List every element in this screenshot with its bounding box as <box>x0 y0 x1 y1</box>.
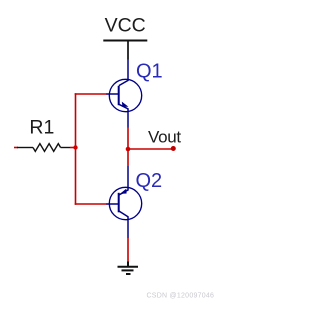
wire Q2 collector to ground <box>127 238 129 262</box>
power symbol VCC bar <box>103 40 147 42</box>
wire Q1 emitter to Vout node <box>127 128 129 150</box>
node Vout port end <box>171 146 176 151</box>
resistor R1 <box>17 144 70 152</box>
wire VCC bar to Q1 collector <box>127 41 129 60</box>
wire base bus vertical <box>75 93 77 205</box>
transistor Q1 (NPN) <box>106 60 142 128</box>
svg-text:VCC: VCC <box>105 14 146 36</box>
node Vout junction <box>126 147 131 152</box>
svg-text:R1: R1 <box>29 117 54 139</box>
node base junction <box>73 145 77 149</box>
svg-text:CSDN @120097046: CSDN @120097046 <box>147 292 215 299</box>
svg-text:Vout: Vout <box>148 127 181 146</box>
svg-text:Q1: Q1 <box>136 60 163 82</box>
svg-text:Q2: Q2 <box>136 170 163 192</box>
wire base bus top horizontal to Q1 base <box>75 93 107 95</box>
transistor Q2 (PNP) <box>106 166 142 238</box>
wire R1 left stub <box>14 147 18 149</box>
wire Vout node to Q2 emitter <box>127 149 129 166</box>
wire base bus bottom horizontal to Q2 base <box>75 203 107 205</box>
wire Vout <box>128 148 173 150</box>
ground <box>118 262 139 275</box>
wire R1 right stub to base junction <box>70 147 76 149</box>
